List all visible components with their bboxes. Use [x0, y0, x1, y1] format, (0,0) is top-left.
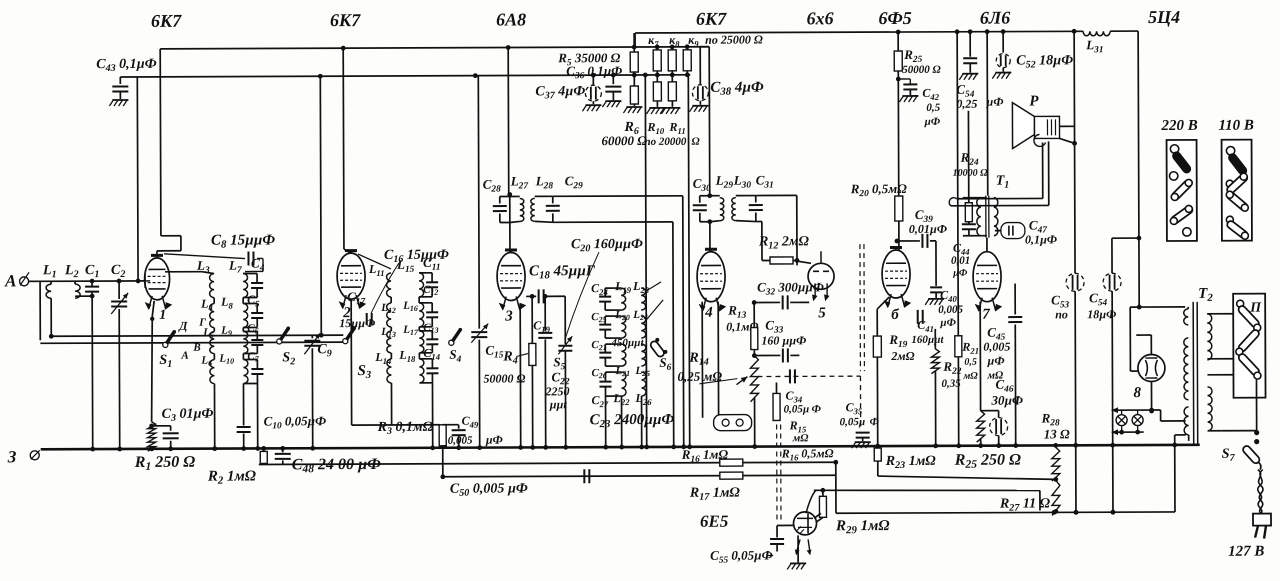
capacitor C49 — [443, 414, 503, 451]
wire antenna — [40, 278, 145, 340]
svg-text:Д: Д — [178, 319, 188, 333]
coil L2 — [64, 263, 92, 298]
wire rect to T2 — [1149, 409, 1154, 414]
label 220 В — [1160, 118, 1197, 134]
capacitor C45 — [983, 284, 1023, 449]
rail mid1 — [806, 487, 1040, 513]
resistor к7 — [653, 47, 661, 75]
resistor R22 — [931, 329, 962, 449]
wire filter line 2 — [1112, 236, 1142, 274]
svg-text:R27 11 Ω: R27 11 Ω — [999, 496, 1051, 513]
svg-text:7: 7 — [982, 307, 990, 323]
resistor R13 — [726, 303, 758, 356]
resistor R10 — [646, 75, 665, 136]
svg-text:R17 1мΩ: R17 1мΩ — [689, 486, 741, 503]
capacitor C52 — [992, 29, 1073, 79]
capacitor C20 callout — [565, 237, 643, 338]
wire box3 drops — [603, 396, 644, 450]
labels L14 L18 C14 — [374, 346, 440, 366]
capacitor C44 — [951, 198, 987, 279]
svg-text:50000 Ω: 50000 Ω — [483, 371, 525, 385]
label tube type 6К7 — [696, 9, 727, 29]
svg-text:450µµt: 450µµt — [610, 337, 644, 349]
coil L29 — [710, 196, 724, 222]
terminal З — [7, 447, 40, 466]
capacitor C54 18uF — [1087, 273, 1122, 515]
label 6 — [891, 307, 899, 323]
transformer T1 — [976, 29, 1009, 252]
capacitor C53 — [1051, 273, 1085, 515]
labels C21 450 — [591, 337, 644, 352]
svg-text:C43 0,1µФ: C43 0,1µФ — [96, 57, 157, 74]
label tube type 6К7 — [151, 11, 182, 31]
resistor R3 — [351, 299, 446, 480]
svg-text:127 В: 127 В — [1228, 544, 1264, 560]
svg-text:13 Ω: 13 Ω — [1044, 426, 1070, 441]
svg-text:160µµt: 160µµt — [911, 334, 944, 346]
capacitor C32 — [752, 279, 824, 309]
connector block — [702, 302, 751, 431]
wire panel to switch — [1221, 380, 1256, 431]
svg-text:µФ: µФ — [952, 268, 968, 279]
label 3 — [504, 303, 523, 449]
svg-text:0,01µФ: 0,01µФ — [909, 222, 947, 236]
coil box 1 L3-L10 C4-C7 — [210, 273, 264, 383]
svg-text:R16 0,5мΩ: R16 0,5мΩ — [781, 446, 834, 462]
wire B+ top rail — [635, 31, 1138, 47]
switch S7 — [1222, 430, 1261, 470]
wire voice coil leads — [949, 141, 1049, 205]
svg-text:R29 1мΩ: R29 1мΩ — [835, 518, 890, 536]
resistor R1 — [134, 422, 196, 474]
wire speaker to filter — [1059, 126, 1076, 145]
band switch bus b — [40, 342, 343, 343]
tube 6Е5 — [793, 512, 816, 556]
capacitor C37b — [602, 75, 621, 107]
svg-text:0,005: 0,005 — [448, 435, 473, 447]
svg-text:R23 1мΩ: R23 1мΩ — [885, 454, 937, 471]
resistor R23 — [874, 448, 936, 471]
svg-text:6Л6: 6Л6 — [980, 8, 1010, 28]
svg-text:0,05µ: 0,05µ — [784, 403, 810, 415]
svg-text:110 В: 110 В — [1218, 118, 1253, 134]
capacitor C30 — [693, 196, 710, 222]
svg-text:5Ц4: 5Ц4 — [1148, 7, 1180, 27]
label 4 — [704, 305, 713, 321]
svg-text:C37 4µФ: C37 4µФ — [535, 84, 585, 101]
band switch bus a — [49, 333, 343, 339]
svg-text:6Е5: 6Е5 — [700, 512, 729, 531]
capacitor C2 variable — [111, 263, 129, 451]
resistor R2 — [207, 446, 268, 487]
coil L28 — [531, 196, 535, 221]
labels L3 L7 C4 — [196, 255, 265, 275]
svg-text:C3 01µФ: C3 01µФ — [162, 407, 214, 424]
wire IF2 bottom tap — [756, 222, 762, 261]
resistor R29 — [816, 490, 890, 536]
labels L4 L8 C5 — [200, 292, 260, 312]
svg-text:6К7: 6К7 — [330, 10, 361, 30]
svg-text:60000 Ω: 60000 Ω — [602, 133, 648, 148]
wire 6E5 grid — [777, 525, 794, 537]
capacitor C41 — [911, 310, 944, 346]
wire tube3 plate — [507, 192, 512, 252]
label C16 15µµФ — [371, 248, 449, 313]
capacitor C38 — [689, 47, 764, 112]
capacitor C48 — [275, 446, 382, 476]
svg-text:50000 Ω: 50000 Ω — [902, 64, 941, 76]
label 8 — [1133, 385, 1141, 401]
wire 6E5 plate — [814, 513, 821, 518]
tube 3 (6А8) — [497, 250, 525, 310]
capacitor C37 — [535, 75, 601, 111]
wire IF1 sec bottom — [553, 222, 676, 450]
fuse panel П — [1233, 294, 1265, 398]
label C22 2250 — [544, 369, 570, 411]
capacitor C50 — [450, 469, 590, 498]
resistor R6 — [601, 75, 647, 148]
T2 secondary coils — [1207, 314, 1212, 431]
svg-text:0,005: 0,005 — [983, 340, 1010, 354]
capacitor C43 — [96, 57, 157, 106]
svg-text:R12 2мΩ: R12 2мΩ — [758, 234, 810, 251]
svg-text:6К7: 6К7 — [696, 9, 727, 29]
capacitor C29 — [535, 196, 560, 222]
capacitor C9 variable — [304, 333, 332, 451]
svg-text:З: З — [7, 447, 17, 466]
labels L11 L15 C11 — [368, 255, 441, 278]
T2 primary coils — [1184, 307, 1189, 441]
resistor R21 — [954, 29, 980, 448]
labels C25 L20 L24 — [591, 309, 648, 324]
labels L5 L9 C6 — [202, 322, 258, 339]
switch S5 — [553, 354, 565, 372]
power cord twisted — [1258, 470, 1263, 514]
svg-text:0,01: 0,01 — [951, 255, 970, 267]
svg-text:2мΩ: 2мΩ — [890, 349, 914, 363]
svg-text:6х6: 6х6 — [807, 8, 834, 28]
label tube type 5Ц4 — [1148, 7, 1180, 27]
tube 4 (6К7) — [697, 249, 725, 311]
pilot lamp 1 — [1112, 407, 1161, 426]
svg-text:0,25: 0,25 — [956, 97, 977, 111]
svg-text:220 В: 220 В — [1160, 118, 1197, 134]
svg-text:µФ: µФ — [986, 354, 1004, 368]
resistor R28 — [1041, 410, 1071, 482]
label tube type 6А8 — [496, 9, 526, 29]
svg-text:мΩ: мΩ — [962, 371, 978, 382]
label к7 к8 к9 по 25000 Ω — [648, 33, 763, 49]
wire filter line 1 — [1072, 29, 1078, 273]
IF transformer 1 tank1 C28/L27 — [509, 194, 511, 224]
wire IF1 sec top — [553, 196, 686, 450]
svg-text:R2 1мΩ: R2 1мΩ — [207, 468, 256, 486]
capacitor C47 — [995, 217, 1057, 246]
voltage panel 220V — [1167, 140, 1197, 241]
tube 7 (6Л6) — [973, 252, 1001, 311]
label C28 L27 L28 C29 — [483, 173, 583, 194]
switch S4 — [449, 328, 463, 364]
capacitor C1 — [85, 263, 100, 451]
svg-text:по: по — [1055, 307, 1068, 321]
dashed AVC line — [757, 369, 860, 429]
capacitor C33 — [752, 317, 807, 362]
svg-text:по 20000: по 20000 — [645, 136, 687, 148]
rail mid0 — [878, 460, 1056, 480]
labels C12 L12 L16 — [380, 284, 438, 315]
label C23 2400µµФ — [590, 412, 675, 430]
svg-text:В: В — [192, 342, 200, 354]
resistor R15 — [773, 382, 809, 444]
svg-text:C38 4µФ: C38 4µФ — [710, 80, 764, 98]
trimmer near S5 — [558, 336, 572, 449]
capacitor C42 — [896, 76, 941, 128]
label R16 0.5 — [781, 446, 834, 462]
wire plate tube3 IF1 — [507, 48, 510, 195]
svg-text:10000 Ω: 10000 Ω — [953, 168, 989, 179]
svg-text:8: 8 — [1133, 385, 1141, 401]
resistor R11 — [661, 75, 685, 136]
svg-text:Ω: Ω — [692, 136, 701, 148]
rail R16 — [259, 462, 836, 464]
coil L30 — [732, 198, 736, 221]
wire tube4 plate chain — [707, 47, 713, 252]
svg-text:C52 18µФ: C52 18µФ — [1016, 53, 1073, 70]
svg-text:30µФ: 30µФ — [991, 393, 1024, 408]
capacitor C54v 0.25 — [956, 29, 1003, 111]
wire IF2 out — [756, 195, 797, 265]
resistor R12 — [758, 234, 811, 264]
label 6Е5 — [700, 512, 729, 531]
switch S6 — [646, 282, 672, 373]
svg-text:R3 0,1мΩ: R3 0,1мΩ — [377, 420, 434, 437]
resistor R25a 50000 — [894, 29, 942, 196]
resistor R20 — [850, 181, 908, 250]
label 127 В — [1228, 544, 1264, 560]
wire box1 top — [165, 272, 214, 274]
switch S2 — [277, 327, 296, 368]
loudspeaker P — [1012, 93, 1059, 148]
capacitor C46 — [976, 302, 1023, 449]
svg-text:А: А — [180, 350, 188, 362]
svg-text:Ф: Ф — [812, 403, 822, 415]
tube 6 (6Ф5) — [882, 247, 910, 307]
capacitor C10 — [264, 413, 327, 431]
wire 5Ц4 anode feed — [1129, 31, 1185, 371]
labels L13 L17 C13 — [380, 322, 438, 339]
svg-text:б: б — [891, 307, 899, 323]
svg-text:по 25000 Ω: по 25000 Ω — [705, 33, 763, 47]
wire osc feed a — [318, 76, 324, 337]
coil box 2 L11-L18 C11-C14 — [387, 273, 439, 383]
potentiometer R14 — [677, 351, 758, 450]
svg-text:2250: 2250 — [544, 384, 569, 398]
tube 1 (6К7) — [144, 255, 171, 309]
wire screen rail — [160, 44, 709, 51]
coil L27 — [510, 196, 524, 222]
svg-text:мΩ: мΩ — [792, 432, 810, 444]
svg-text:18µФ: 18µФ — [1087, 307, 1116, 321]
labels C26 L21 L25 — [591, 365, 650, 380]
switch S3 — [343, 326, 372, 381]
wire grid cap tube2 — [343, 48, 391, 269]
svg-text:0,5: 0,5 — [964, 357, 977, 368]
wire screen drop — [643, 75, 649, 449]
svg-text:5: 5 — [818, 305, 826, 321]
terminal A — [4, 271, 40, 290]
svg-text:160 µµФ: 160 µµФ — [761, 333, 806, 347]
label 110 В — [1218, 118, 1253, 134]
label tube type 6Л6 — [980, 8, 1010, 28]
resistor к8 — [668, 47, 676, 75]
capacitor C31 — [736, 196, 763, 222]
wire AVC drop — [686, 75, 692, 449]
svg-text:6Ф5: 6Ф5 — [878, 8, 911, 28]
capacitor C3 — [149, 407, 214, 452]
label R25 250 — [954, 452, 1021, 472]
capacitor C40 — [925, 287, 963, 329]
svg-text:R1 250 Ω: R1 250 Ω — [134, 454, 196, 474]
label 2 — [342, 305, 351, 321]
labels L6 L10 C7 — [200, 350, 259, 367]
dashed grid line 6E5 — [777, 424, 781, 523]
capacitor C55 — [710, 535, 806, 569]
svg-text:15µµФ: 15µµФ — [339, 316, 375, 330]
resistor R17 — [689, 472, 743, 503]
capacitor C34 label — [783, 388, 821, 415]
capacitor C39 — [894, 207, 947, 286]
svg-text:0,05µ: 0,05µ — [840, 416, 866, 428]
svg-text:6К7: 6К7 — [151, 11, 182, 31]
svg-text:µµt: µµt — [549, 397, 568, 411]
resistor R5 — [557, 33, 638, 81]
label R14 arrow — [699, 379, 737, 384]
label tube type 6К7 — [330, 10, 361, 30]
choke L31 — [1083, 31, 1110, 55]
svg-text:6А8: 6А8 — [496, 9, 526, 29]
labels C24 L19 L23 — [591, 279, 650, 297]
label C18 45µµГ — [529, 263, 596, 281]
capacitor C19 — [533, 296, 553, 449]
resistor R19 — [873, 297, 915, 449]
tube 5 (6х6 diode) — [808, 251, 834, 301]
svg-text:0,1µФ: 0,1µФ — [1025, 232, 1057, 246]
capacitor C35 — [840, 400, 880, 448]
wire AVC to grid — [136, 77, 139, 281]
label tube type 6Ф5 — [878, 8, 911, 28]
wires T2 to panel — [1207, 314, 1233, 431]
wire AVC rail — [120, 72, 690, 79]
rail C50 — [443, 462, 836, 515]
labels C27 L22 L26 — [592, 391, 653, 409]
wire box1 ground drops — [212, 383, 260, 451]
resistor R16 — [681, 446, 838, 466]
voltage panel 110V — [1222, 140, 1252, 241]
switch S1 — [159, 317, 206, 370]
dashed box around 6x6 — [860, 244, 864, 371]
svg-text:Р: Р — [1029, 93, 1039, 109]
label C30 L29 L30 C31 — [693, 172, 774, 193]
label по 20000 Ω — [645, 136, 701, 148]
coil L1 — [42, 263, 57, 336]
capacitor C15 trimmer — [471, 324, 504, 451]
wire bottom rail to T2 — [1172, 435, 1186, 512]
tube 8 (5Ц4) upd — [1136, 335, 1165, 410]
svg-text:R25 250 Ω: R25 250 Ω — [954, 452, 1021, 472]
capacitor C28 — [493, 196, 510, 222]
svg-text:1: 1 — [159, 308, 166, 323]
transformer T2 core — [1193, 286, 1214, 444]
wire osc feed b — [477, 76, 480, 329]
svg-text:µФ: µФ — [923, 116, 940, 128]
capacitor C17 trimmer — [339, 289, 375, 330]
svg-text:0,5: 0,5 — [926, 102, 940, 114]
svg-text:0,005: 0,005 — [938, 304, 963, 316]
coil box 3 L19-L26 C24-C27 — [599, 288, 646, 396]
capacitor C18 — [526, 289, 565, 344]
resistor R27 — [999, 480, 1060, 515]
label 5 — [818, 305, 826, 321]
resistor R4 — [483, 296, 536, 450]
svg-text:µФ: µФ — [485, 433, 503, 447]
svg-text:µФ: µФ — [939, 317, 956, 329]
rail mid2 — [836, 510, 1175, 516]
svg-text:3: 3 — [504, 308, 513, 324]
label 1 — [150, 301, 167, 422]
wire box2 drops — [391, 383, 435, 451]
pilot lamp 2 — [1112, 410, 1186, 435]
ground rail — [41, 445, 1200, 449]
wire grid cap tube1 — [156, 49, 181, 256]
power plug — [1253, 514, 1271, 539]
label 7 — [982, 307, 990, 323]
resistor R24 — [952, 111, 988, 225]
svg-text:C8 15µµФ: C8 15µµФ — [211, 232, 276, 250]
svg-text:А: А — [4, 271, 16, 290]
resistor к9 — [683, 47, 691, 75]
label tube type 6х6 — [807, 8, 834, 28]
tube 2 (6К7) — [337, 251, 365, 309]
svg-text:4: 4 — [704, 305, 713, 321]
capacitor C8 trimmer — [164, 232, 276, 271]
